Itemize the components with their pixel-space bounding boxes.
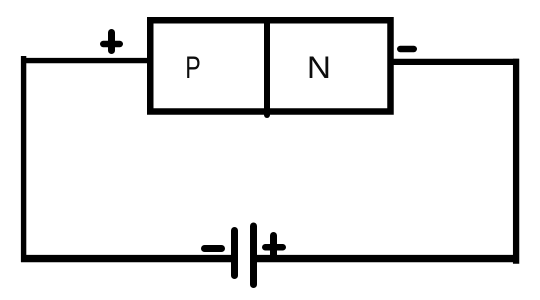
anode plus sign xyxy=(103,41,120,48)
wire left vertical xyxy=(21,56,26,262)
wire top-right horizontal xyxy=(390,59,519,65)
cathode minus sign xyxy=(400,46,414,53)
diode body rectangle (PN junction) xyxy=(150,20,390,111)
battery B1 positive plate (long bar) xyxy=(250,226,257,285)
junction divider line xyxy=(264,21,270,115)
svg-text:P: P xyxy=(185,49,200,84)
battery plus polarity sign xyxy=(265,244,283,251)
svg-text:N: N xyxy=(307,49,331,85)
wire bottom-right segment xyxy=(257,255,520,262)
wire right vertical xyxy=(513,59,519,264)
wire top-left horizontal xyxy=(21,58,150,63)
battery minus polarity sign xyxy=(205,245,222,252)
wire bottom-left segment xyxy=(21,255,232,262)
battery B1 negative plate (short bar) xyxy=(231,231,238,276)
